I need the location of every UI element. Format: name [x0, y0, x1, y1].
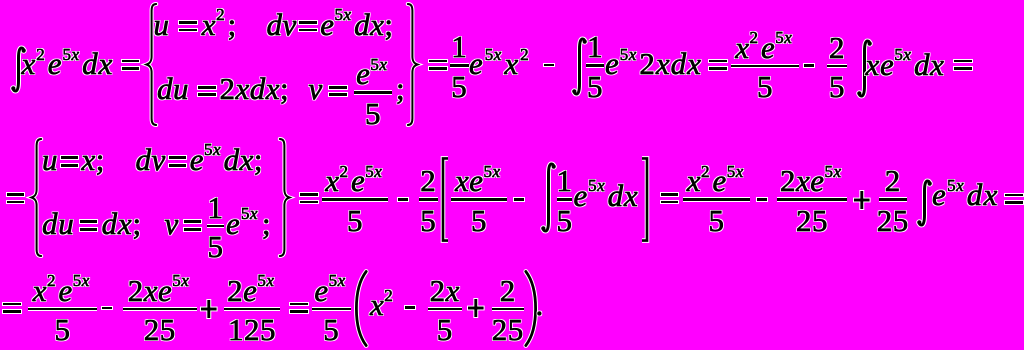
fraction 1/5 d [557, 165, 572, 235]
fraction x²e⁵ˣ/5 d [28, 275, 97, 345]
minus 6 [102, 307, 112, 310]
close brace line1 [406, 3, 421, 126]
term e⁵ˣ; rowB [226, 208, 272, 239]
row u = x²; [154, 9, 238, 40]
close brace line2 [278, 138, 293, 257]
term e⁵ˣdx b [932, 179, 999, 210]
equals 6 [300, 193, 318, 203]
row dv = e⁵ˣdx; [267, 9, 394, 40]
close bracket [641, 157, 650, 242]
integral line1 ∫x²e⁵ˣdx [11, 47, 26, 92]
term e⁵ˣ x² [469, 48, 532, 79]
equals 3 [709, 60, 727, 70]
open bracket [440, 157, 449, 242]
period [536, 289, 544, 320]
plus 3 [468, 299, 484, 317]
equals 7 [661, 193, 679, 203]
fraction 1/5 c [207, 192, 224, 262]
row dv = e⁵ˣdx; b [136, 144, 263, 175]
term e⁵ˣdx a [574, 180, 639, 211]
fraction x²e⁵ˣ/5 b [322, 165, 388, 235]
equals 8 [1005, 194, 1023, 204]
minus 3 [398, 198, 408, 201]
fraction 1/5 b [586, 31, 604, 101]
equals 1 [122, 60, 140, 70]
integral ∫(1/5)e⁵ˣ2xdx [572, 38, 587, 95]
fraction 2xe⁵ˣ/25 b [123, 275, 197, 345]
integral ∫(1/5)e⁵ˣdx [541, 163, 556, 232]
fraction e⁵ˣ/5 [354, 58, 392, 128]
minus 7 [405, 306, 415, 309]
row v = [309, 73, 347, 104]
term xe⁵ˣdx [866, 49, 945, 80]
fraction x²e⁵ˣ/5 c [683, 165, 750, 235]
open brace line2 [28, 138, 43, 257]
open brace line1 [143, 3, 158, 126]
equals 4 [954, 60, 972, 70]
fraction xe⁵ˣ/5 [451, 165, 507, 235]
close paren [524, 270, 538, 347]
term e⁵ˣ2xdx [605, 48, 702, 79]
row du = dx; [42, 208, 142, 239]
plus 2 [201, 300, 217, 318]
fraction 2/25 b [492, 275, 524, 345]
minus 4 [514, 198, 524, 201]
row du = 2xdx; [157, 73, 289, 104]
fraction 2/5 b [419, 165, 439, 235]
equals 5 [7, 193, 25, 203]
row v = b [165, 208, 202, 239]
row u = x; [42, 144, 105, 175]
term x²e⁵ˣdx [22, 48, 114, 79]
minus 5 [757, 198, 767, 201]
fraction 2/25 a [879, 165, 907, 235]
equals 10 [290, 303, 308, 313]
equals 2 [429, 60, 447, 70]
fraction x²e⁵ˣ/5 a [731, 32, 799, 102]
integral ∫e⁵ˣdx [917, 180, 932, 226]
open paren [354, 270, 368, 347]
integral ∫xe⁵ˣdx [857, 40, 872, 97]
equals 9 [3, 303, 21, 313]
plus 1 [854, 191, 870, 209]
minus 2 [804, 64, 814, 67]
fraction 2x/5 [428, 275, 463, 345]
fraction 2/5 a [827, 32, 847, 102]
fraction 1/5 a [450, 31, 469, 101]
semicolon rowB [396, 73, 405, 104]
fraction 2e⁵ˣ/125 [224, 275, 280, 345]
fraction 2xe⁵ˣ/25 [777, 165, 847, 235]
term x² [370, 289, 396, 320]
fraction e⁵ˣ/5 b [312, 275, 352, 345]
minus 1 [544, 64, 554, 67]
